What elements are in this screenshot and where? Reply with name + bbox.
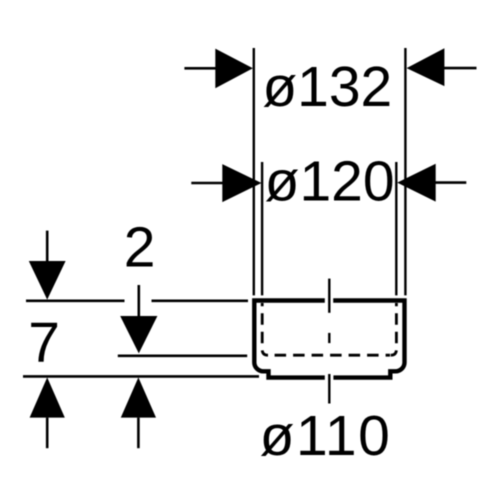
arrow ø120 left [222,164,261,202]
extension line ø120 right [395,162,397,295]
inner wall dashed left [262,303,268,355]
arrow inner-bottom (down) tail [138,285,141,317]
arrow 2-dim top (down) tail [46,231,49,262]
svg-text:ø120: ø120 [265,150,395,214]
centerline short dash [328,333,330,343]
arrow bottom right (up) head [121,377,156,417]
arrow bottom left (up) tail [46,418,49,449]
inner bottom surface line left [118,354,247,357]
cup outline left half [254,301,325,378]
centerline lower segment [328,374,330,404]
top surface line right segment [152,299,249,302]
inner bottom dashed [269,354,390,357]
extension line ø132 right [404,48,406,295]
arrow 2-dim top (down) head [29,261,66,300]
dimension ø132 right tail [444,67,477,70]
top surface line left segment [26,299,125,302]
arrow bottom left (up) head [30,377,65,417]
svg-text:ø110: ø110 [260,404,392,468]
arrow inner-bottom (down) head [120,316,157,353]
dimension ø120 left tail [191,182,223,185]
svg-text:ø132: ø132 [262,55,392,119]
arrow ø132 right [407,48,445,86]
arrow ø120 right [397,164,436,202]
dimension ø132 left tail [184,67,217,70]
centerline upper segment [328,279,330,313]
svg-text:7: 7 [28,311,60,375]
bottom surface line left [23,375,259,378]
cup outline right half [333,301,404,378]
extension line ø120 left [261,162,263,295]
extension line ø132 left [253,48,255,295]
dimension ø120 right tail [435,181,466,184]
arrow ø132 left [215,49,253,89]
svg-text:2: 2 [124,215,156,279]
inner wall dashed right [391,303,397,355]
arrow bottom right (up) tail [137,418,140,449]
